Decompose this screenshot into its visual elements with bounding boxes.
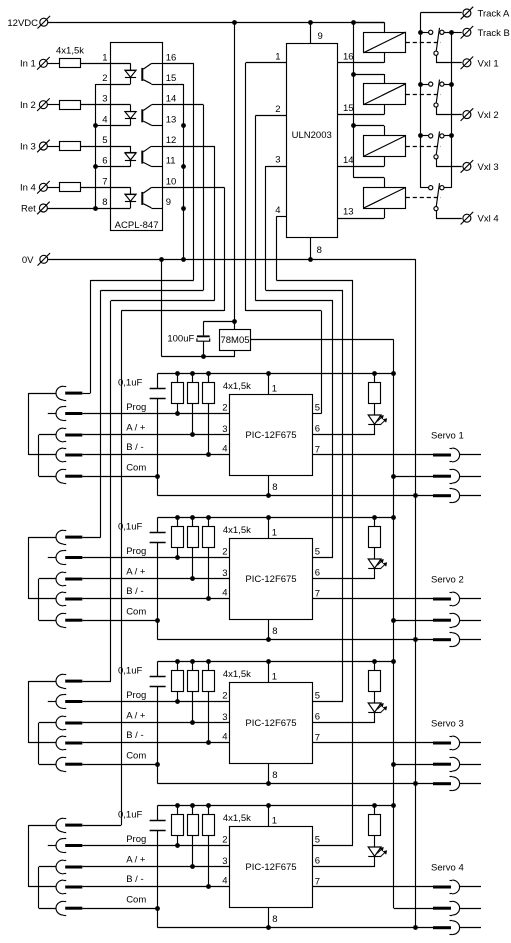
junction pin11 gnd <box>181 164 186 169</box>
relay K1 contact set <box>420 32 428 34</box>
junction K3 track B bus <box>449 133 454 138</box>
junction R2a Prog <box>175 555 180 560</box>
svg-text:2: 2 <box>222 835 227 846</box>
resistor network 4x1,5k section 2 <box>172 527 184 548</box>
wire resistor to ACPL pin 1 <box>80 63 110 65</box>
svg-text:0,1uF: 0,1uF <box>118 521 142 532</box>
svg-text:In 3: In 3 <box>20 141 36 152</box>
connector Prog section 4 <box>56 839 63 853</box>
relay K3 coil <box>364 136 406 157</box>
svg-text:7: 7 <box>102 176 107 187</box>
mechanical link relay K1 <box>406 42 441 44</box>
svg-text:6: 6 <box>315 712 320 723</box>
junction rail LED resistor 2 <box>372 515 377 520</box>
wire Prog 3 to PIC pin2 <box>82 701 229 703</box>
wire K1 pole to Vxl 1 <box>436 56 438 63</box>
wire PIC2 pin7 servo signal <box>313 598 434 600</box>
wire Com 4 to cap node <box>82 908 157 910</box>
terminal Ret <box>39 204 47 212</box>
resistor network 4x1,5k section 4 <box>172 815 184 836</box>
connector B/- section 1 <box>56 448 63 462</box>
wire PIC3 pin5 to ULN <box>313 701 344 703</box>
junction R4c B/- <box>206 884 211 889</box>
svg-text:Prog: Prog <box>126 690 146 701</box>
junction R4a Prog <box>175 843 180 848</box>
svg-text:B / -: B / - <box>126 442 143 453</box>
svg-text:11: 11 <box>166 156 176 167</box>
svg-text:4x1,5k: 4x1,5k <box>223 525 251 536</box>
svg-text:78M05: 78M05 <box>220 335 249 346</box>
wire PIC3 pin7 servo signal <box>313 742 434 744</box>
microcontroller U6 PIC-12F675 <box>230 539 313 620</box>
LED D3 <box>368 703 381 712</box>
junction rail R1a <box>175 371 180 376</box>
node +5V rail section 4 <box>158 805 394 807</box>
junction Com 1 <box>155 474 160 479</box>
junction relay3 feed <box>351 123 356 128</box>
svg-text:PIC-12F675: PIC-12F675 <box>245 718 296 729</box>
relay K3 contact set <box>420 135 428 137</box>
wire resistor to ACPL pin 3 <box>80 104 110 106</box>
svg-text:0,1uF: 0,1uF <box>118 665 142 676</box>
microcontroller U5 PIC-12F675 <box>230 395 313 476</box>
svg-text:A / +: A / + <box>126 855 146 866</box>
wire loop A/+ to Com section 2 <box>39 578 56 580</box>
svg-text:B / -: B / - <box>126 730 143 741</box>
wire PIC4 pin6 to LED <box>313 866 375 868</box>
junction 100uF gnd <box>201 354 206 359</box>
node +5V rail section 1 <box>158 373 394 375</box>
junction ULN pin8 0V <box>308 257 313 262</box>
svg-text:13: 13 <box>343 207 354 218</box>
capacitor C1 0,1uF <box>157 373 159 388</box>
svg-text:4x1,5k: 4x1,5k <box>56 46 84 57</box>
wire PIC2 pin5 to ULN <box>313 557 334 559</box>
junction rail LED resistor 4 <box>372 803 377 808</box>
connector section 2 input A row <box>56 530 63 544</box>
junction R3a Prog <box>175 699 180 704</box>
svg-text:8: 8 <box>272 914 277 925</box>
wire A/+ 4 to PIC pin3 <box>82 866 229 868</box>
junction Com 3 <box>155 762 160 767</box>
mechanical link relay K3 <box>406 146 441 148</box>
svg-text:4: 4 <box>222 443 227 454</box>
svg-text:2: 2 <box>102 73 107 84</box>
junction rail R3b <box>190 659 195 664</box>
node ground rail section 4 <box>158 927 433 929</box>
junction pin13 gnd <box>181 123 186 128</box>
junction R1c B/- <box>206 452 211 457</box>
opto channel 1 phototransistor <box>141 68 143 81</box>
junction rail R2a <box>175 515 180 520</box>
svg-text:3: 3 <box>222 712 227 723</box>
wire servo 4 +5V row <box>394 908 433 910</box>
svg-text:15: 15 <box>166 73 177 84</box>
svg-text:1: 1 <box>272 671 277 682</box>
svg-text:7: 7 <box>315 444 320 455</box>
svg-text:Vxl 3: Vxl 3 <box>478 162 499 173</box>
svg-text:B / -: B / - <box>126 874 143 885</box>
svg-text:6: 6 <box>102 156 107 167</box>
svg-text:100uF: 100uF <box>167 334 194 345</box>
wire 0V bus right <box>415 259 417 927</box>
junction +5V bus servo 2 <box>391 618 396 623</box>
connector Com section 4 <box>56 901 63 915</box>
wire loop row1 to B/- section 2 <box>29 537 57 539</box>
wire +5V bus <box>393 340 395 908</box>
resistor LED R2 <box>369 527 381 548</box>
opto channel 3 phototransistor <box>141 151 143 164</box>
wire PIC3 pin1 VDD <box>268 661 270 682</box>
regulator U3 78M05 <box>220 330 251 351</box>
svg-text:ULN2003: ULN2003 <box>292 130 332 141</box>
resistor LED R1 <box>369 383 381 404</box>
junction rail R2b <box>190 515 195 520</box>
svg-text:4: 4 <box>102 114 107 125</box>
svg-text:6: 6 <box>315 424 320 435</box>
svg-text:1: 1 <box>275 51 280 62</box>
connector Servo 1 gnd <box>433 494 451 497</box>
svg-text:14: 14 <box>343 155 354 166</box>
terminal In 4 <box>39 183 47 191</box>
terminal In 1 <box>39 59 47 67</box>
wire Com 4 down to ground rail <box>157 908 159 928</box>
wire PIC1 pin5 to ULN <box>313 413 322 415</box>
svg-text:7: 7 <box>315 588 320 599</box>
connector Servo 3 +5V <box>433 763 451 766</box>
junction rail PIC1 pin1 <box>266 371 271 376</box>
wire ACPL pin16 to servo1 input <box>163 63 194 65</box>
svg-text:12: 12 <box>166 135 177 146</box>
wire regulator input branch <box>203 321 234 323</box>
relay K4 coil <box>364 188 406 209</box>
capacitor C2 0,1uF <box>157 517 159 532</box>
junction pin9 gnd <box>181 206 186 211</box>
svg-text:Prog: Prog <box>126 546 146 557</box>
svg-text:A / +: A / + <box>126 711 146 722</box>
junction rail +5V bus <box>391 515 396 520</box>
connector Servo 2 gnd <box>433 638 451 641</box>
svg-text:16: 16 <box>166 52 177 63</box>
junction K1 track A bus <box>418 30 423 35</box>
svg-text:5: 5 <box>315 402 320 413</box>
wire relay feed bus <box>353 22 355 177</box>
opto channel 4 phototransistor <box>141 192 143 205</box>
wire ULN input 4 from PIC4 pin5 <box>276 216 286 218</box>
svg-text:1: 1 <box>272 527 277 538</box>
junction K2 track B bus <box>449 82 454 87</box>
node ground rail section 1 <box>158 495 433 497</box>
junction relay2 feed <box>351 72 356 77</box>
relay K4 contact set <box>420 187 428 189</box>
wire loop A/+ to Com section 3 <box>39 722 56 724</box>
mechanical link relay K2 <box>406 94 441 96</box>
wire Com 3 down to ground rail <box>157 764 159 784</box>
junction R3c B/- <box>206 740 211 745</box>
svg-text:1: 1 <box>272 383 277 394</box>
svg-text:6: 6 <box>315 856 320 867</box>
wire A/+ 3 to PIC pin3 <box>82 722 229 724</box>
svg-text:4x1,5k: 4x1,5k <box>223 813 251 824</box>
resistor R4 (1,5k) <box>60 183 81 192</box>
wire In 2 to resistor <box>48 104 60 106</box>
svg-text:In 1: In 1 <box>20 59 36 70</box>
connector Servo 3 gnd <box>433 782 451 785</box>
resistor network 4x1,5k section 3 <box>172 671 184 692</box>
terminal In 2 <box>39 101 47 109</box>
svg-text:4: 4 <box>222 587 227 598</box>
svg-text:PIC-12F675: PIC-12F675 <box>245 574 296 585</box>
svg-text:4: 4 <box>222 875 227 886</box>
wire K3 pole to Vxl 3 <box>436 159 438 166</box>
connector Servo 3 signal <box>433 742 451 745</box>
wire regulator ground rail <box>161 259 163 356</box>
svg-text:15: 15 <box>343 103 354 114</box>
wire cap C1 to Com <box>157 398 159 476</box>
svg-text:Vxl 2: Vxl 2 <box>478 110 499 121</box>
wire PIC4 pin5 to ULN <box>313 845 354 847</box>
junction pin4 cathode bus <box>93 123 98 128</box>
capacitor C5 100uF <box>197 335 210 337</box>
node ground rail section 3 <box>158 783 433 785</box>
wire loop row1 to B/- section 4 <box>29 825 57 827</box>
connector Prog section 3 <box>56 695 63 709</box>
wire 12VDC rail <box>48 22 384 24</box>
connector Com section 1 <box>56 469 63 483</box>
connector Servo 4 gnd <box>433 926 451 929</box>
junction Com 4 <box>155 906 160 911</box>
connector Servo 1 +5V <box>433 475 451 478</box>
wire Com 3 to cap node <box>82 764 157 766</box>
junction R4b A/+ <box>190 864 195 869</box>
junction gnd rail PIC2 pin8 <box>266 637 271 642</box>
resistor R3 (1,5k) <box>60 142 81 151</box>
terminal Track A <box>463 9 471 17</box>
wire resistor to ACPL pin 5 <box>80 146 110 148</box>
svg-text:2: 2 <box>222 403 227 414</box>
svg-text:Vxl 1: Vxl 1 <box>478 58 499 69</box>
svg-text:2: 2 <box>222 547 227 558</box>
LED D2 <box>368 559 381 568</box>
relay K2 contact set <box>420 84 428 86</box>
svg-text:5: 5 <box>315 834 320 845</box>
junction R3b A/+ <box>190 720 195 725</box>
svg-text:Ret: Ret <box>21 203 36 214</box>
wire B/- 4 to PIC pin4 <box>82 886 229 888</box>
wire ACPL pin10 to servo4 input <box>163 187 224 189</box>
svg-text:5: 5 <box>102 135 107 146</box>
svg-text:Vxl 4: Vxl 4 <box>478 214 499 225</box>
svg-text:3: 3 <box>222 568 227 579</box>
wire relay K4 to ULN pin <box>384 208 386 218</box>
node +5V rail section 2 <box>158 517 394 519</box>
junction rail +5V bus <box>391 659 396 664</box>
junction rail R4c <box>206 803 211 808</box>
wire Track B bus <box>451 32 453 187</box>
wire relay K2 to ULN pin <box>384 105 386 115</box>
wire PIC4 pin8 VSS <box>268 908 270 928</box>
svg-text:1: 1 <box>272 815 277 826</box>
connector A/+ section 4 <box>56 860 63 874</box>
wire PIC2 pin1 VDD <box>268 517 270 538</box>
svg-text:14: 14 <box>166 94 177 105</box>
wire K2 pole to Vxl 2 <box>436 107 438 114</box>
wire loop row1 to B/- section 3 <box>29 681 57 683</box>
terminal 0V <box>40 255 48 263</box>
junction K3 track A bus <box>418 133 423 138</box>
junction rail R1c <box>206 371 211 376</box>
junction rail PIC3 pin1 <box>266 659 271 664</box>
junction rail R4b <box>190 803 195 808</box>
connector section 3 input A row <box>56 674 63 688</box>
junction relay feed bus <box>351 20 356 25</box>
wire K4 pole to Vxl 4 <box>436 211 438 218</box>
connector Prog section 1 <box>56 407 63 421</box>
junction gnd rail PIC1 pin8 <box>266 493 271 498</box>
capacitor C4 0,1uF <box>157 805 159 820</box>
ULN pin 9 wire <box>310 22 312 43</box>
wire loop A/+ to Com section 1 <box>39 434 56 436</box>
svg-text:3: 3 <box>222 424 227 435</box>
junction gnd rail PIC3 pin8 <box>266 781 271 786</box>
connector section 4 input A row <box>56 818 63 832</box>
wire Com 1 to cap node <box>82 476 157 478</box>
svg-text:5: 5 <box>315 546 320 557</box>
microcontroller U7 PIC-12F675 <box>230 683 313 764</box>
resistor R1 (1,5k) <box>60 59 81 68</box>
svg-text:13: 13 <box>166 114 177 125</box>
svg-text:Prog: Prog <box>126 834 146 845</box>
wire ACPL cathode bus (pins 2,4,6,8) <box>95 84 110 86</box>
resistor LED R4 <box>369 815 381 836</box>
wire Track A bus <box>420 12 462 14</box>
svg-text:Com: Com <box>126 895 146 906</box>
opto channel 3 LED <box>110 146 130 148</box>
wire relay K4 12V feed <box>353 177 384 179</box>
wire Com 2 to cap node <box>82 620 157 622</box>
wire In 1 to resistor <box>48 63 60 65</box>
wire PIC1 pin6 to LED <box>313 434 375 436</box>
svg-text:Servo 1: Servo 1 <box>431 430 464 441</box>
svg-text:7: 7 <box>315 876 320 887</box>
opto channel 4 LED <box>110 187 130 189</box>
junction 0V ACPL gnd <box>181 257 186 262</box>
opto-coupler U1 ACPL-847 body <box>111 43 163 231</box>
wire ACPL pin14 to servo2 input <box>163 104 203 106</box>
wire In 3 to resistor <box>48 146 60 148</box>
connector Com section 3 <box>56 757 63 771</box>
junction rail +5V bus <box>391 803 396 808</box>
svg-text:8: 8 <box>272 626 277 637</box>
svg-text:8: 8 <box>272 482 277 493</box>
svg-text:Prog: Prog <box>126 402 146 413</box>
svg-text:7: 7 <box>315 732 320 743</box>
wire PIC2 pin6 to LED <box>313 578 375 580</box>
node ground rail section 2 <box>158 639 433 641</box>
wire Com 1 down to ground rail <box>157 476 159 496</box>
svg-text:8: 8 <box>272 770 277 781</box>
wire B/- 2 to PIC pin4 <box>82 598 229 600</box>
svg-text:Track A: Track A <box>478 9 511 20</box>
svg-text:1: 1 <box>102 52 107 63</box>
junction gnd rail 0V bus 4 <box>413 925 418 930</box>
resistor LED R3 <box>369 671 381 692</box>
svg-text:16: 16 <box>343 51 354 62</box>
junction rail LED resistor 3 <box>372 659 377 664</box>
connector B/- section 2 <box>56 592 63 606</box>
terminal In 3 <box>39 142 47 150</box>
connector Servo 2 signal <box>433 598 451 601</box>
wire ACPL pin12 to servo3 input <box>163 146 215 148</box>
junction Com 2 <box>155 618 160 623</box>
wire A/+ 2 to PIC pin3 <box>82 578 229 580</box>
svg-text:3: 3 <box>222 856 227 867</box>
relay K2 coil <box>364 84 406 105</box>
terminal Vxl 1 <box>463 59 471 67</box>
svg-text:4x1,5k: 4x1,5k <box>223 381 251 392</box>
svg-text:In 2: In 2 <box>20 100 36 111</box>
wire Prog 2 to PIC pin2 <box>82 557 229 559</box>
svg-text:PIC-12F675: PIC-12F675 <box>245 862 296 873</box>
wire ULN input 1 from PIC1 pin5 <box>246 62 286 64</box>
junction 0V regulator gnd <box>159 257 164 262</box>
connector Servo 1 signal <box>433 454 451 457</box>
junction +5V bus servo 3 <box>391 762 396 767</box>
terminal Vxl 3 <box>463 162 471 170</box>
wire loop A/+ to Com section 4 <box>39 866 56 868</box>
wire cap C3 to Com <box>157 686 159 764</box>
mechanical link relay K4 <box>406 197 441 199</box>
LED D4 <box>368 847 381 856</box>
wire B/- 1 to PIC pin4 <box>82 454 229 456</box>
wire B/- 3 to PIC pin4 <box>82 742 229 744</box>
terminal Vxl 4 <box>463 214 471 222</box>
junction rail R3c <box>206 659 211 664</box>
wire +5V from 78M05 <box>250 339 393 341</box>
wire 78M05 input lead <box>234 322 236 330</box>
svg-text:2: 2 <box>275 104 280 115</box>
resistor network 4x1,5k section 1 <box>172 383 184 404</box>
svg-text:A / +: A / + <box>126 567 146 578</box>
ULN pin 8 wire <box>310 238 312 260</box>
svg-text:A / +: A / + <box>126 423 146 434</box>
wire 0V rail <box>48 259 416 261</box>
svg-text:8: 8 <box>317 245 322 256</box>
wire Com 2 down to ground rail <box>157 620 159 640</box>
junction ULN pin9 <box>308 20 313 25</box>
junction rail R3a <box>175 659 180 664</box>
svg-text:10: 10 <box>166 176 177 187</box>
wire ACPL pin15 to ground bus <box>163 84 184 86</box>
relay K1 coil <box>364 33 406 53</box>
junction rail +5V bus <box>391 371 396 376</box>
wire PIC1 pin7 servo signal <box>313 454 434 456</box>
wire PIC3 pin8 VSS <box>268 764 270 784</box>
junction R2b A/+ <box>190 576 195 581</box>
junction rail R1b <box>190 371 195 376</box>
connector Com section 2 <box>56 613 63 627</box>
svg-text:0,1uF: 0,1uF <box>118 377 142 388</box>
svg-text:5: 5 <box>315 690 320 701</box>
connector A/+ section 2 <box>56 572 63 586</box>
svg-text:0,1uF: 0,1uF <box>118 809 142 820</box>
junction rail PIC2 pin1 <box>266 515 271 520</box>
LED D1 <box>368 415 381 424</box>
svg-text:Com: Com <box>126 607 146 618</box>
wire PIC4 pin7 servo signal <box>313 886 434 888</box>
microcontroller U8 PIC-12F675 <box>230 827 313 908</box>
svg-text:12VDC: 12VDC <box>7 18 38 29</box>
